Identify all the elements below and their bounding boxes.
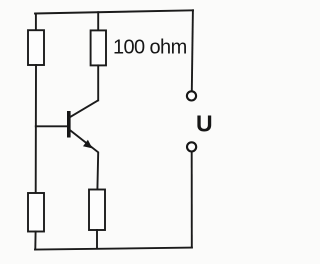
wire bottom rail [35, 248, 192, 250]
wire top rail [35, 10, 193, 13]
terminal bottom [187, 142, 196, 151]
wire R3 to bottom rail [34, 232, 36, 250]
terminal top [187, 91, 196, 100]
Q1 emitter arrowhead [83, 140, 92, 149]
wire top rail to R2 [97, 12, 99, 30]
Q1 emitter diagonal [69, 129, 98, 189]
wire top rail to R1 [35, 14, 37, 31]
wire left vertical (R1 to R3) [35, 65, 37, 193]
wire right vertical top (rail to terminal) [192, 10, 193, 91]
wire R4 to bottom rail [96, 230, 98, 248]
resistor R3 [28, 193, 44, 232]
resistor R1 [28, 30, 44, 65]
transistor Q1 [67, 100, 98, 189]
resistor R2 [91, 30, 106, 65]
wire base (left rail to Q1) [36, 125, 67, 127]
Q1 collector diagonal [69, 100, 98, 117]
resistor R4 [89, 190, 105, 231]
svg-text:100 ohm: 100 ohm [113, 36, 187, 58]
Q1 base bar [67, 111, 71, 138]
wire right vertical bottom (terminal to rail) [191, 152, 193, 248]
wire collector vertical (R2 to Q1) [97, 65, 99, 100]
svg-text:U: U [196, 111, 213, 137]
